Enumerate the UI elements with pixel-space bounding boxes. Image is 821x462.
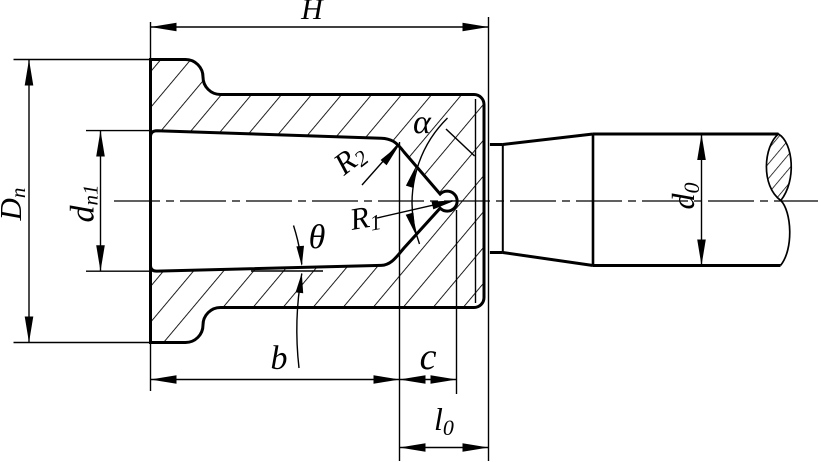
svg-text:H: H — [300, 0, 325, 26]
svg-text:α: α — [413, 104, 432, 141]
svg-text:c: c — [420, 336, 437, 378]
svg-text:θ: θ — [309, 219, 326, 256]
svg-text:b: b — [271, 340, 288, 377]
